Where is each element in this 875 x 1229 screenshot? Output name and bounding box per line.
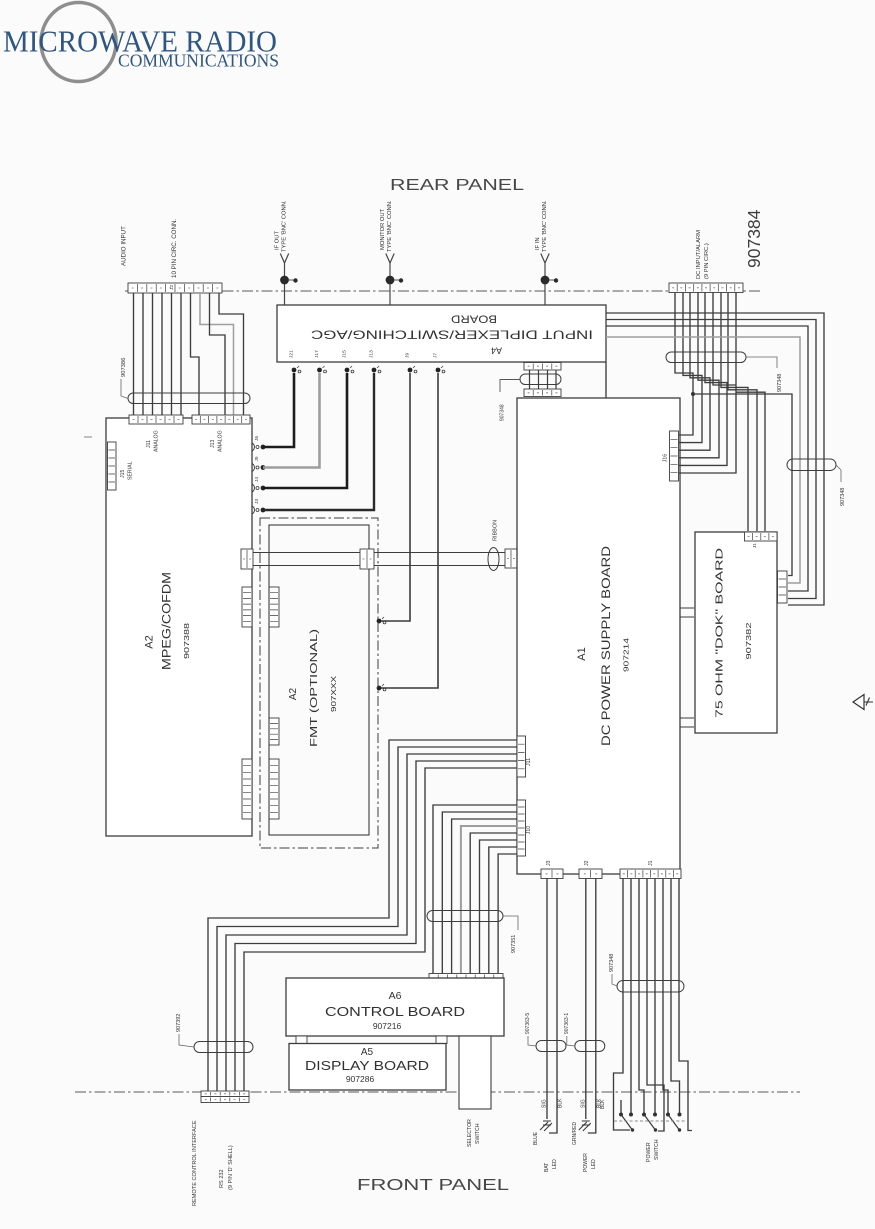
svg-text:BLUE: BLUE xyxy=(533,1131,539,1145)
svg-text:J1: J1 xyxy=(752,543,757,548)
svg-text:INPUT DIPLEXER/SWITCHING/AGC: INPUT DIPLEXER/SWITCHING/AGC xyxy=(311,328,593,342)
svg-text:J4: J4 xyxy=(254,477,260,482)
svg-text:A1: A1 xyxy=(576,647,588,660)
board 75 OHM DOK 907382 xyxy=(695,532,777,733)
coax connector J1 on FMT right edge xyxy=(377,686,382,691)
switch fixed contact feeds xyxy=(639,879,668,1114)
connector pair A2/FMT upper xyxy=(242,587,252,627)
board A2 MPEG/COFDM 907388 xyxy=(106,418,252,836)
LED BAT xyxy=(540,1121,552,1131)
BNC jack MONITOR OUT xyxy=(386,254,394,306)
board link A1-DOK upper xyxy=(680,608,694,617)
coax connector J4 on A2 right edge xyxy=(252,484,254,492)
connector J13 analog on A2 xyxy=(192,415,250,424)
svg-text:907XXX: 907XXX xyxy=(331,676,338,712)
coax wire A2 J6 to A4 J21 xyxy=(263,373,294,447)
svg-text:REAR PANEL: REAR PANEL xyxy=(390,177,525,194)
svg-text:A2: A2 xyxy=(288,687,299,700)
connector J2 on DOK top xyxy=(745,532,778,541)
coax wire A2 J3 to A4 J13 xyxy=(263,373,374,510)
svg-text:907351: 907351 xyxy=(511,935,517,953)
svg-text:LED: LED xyxy=(552,1159,558,1169)
coax connector J6 on A2 right edge xyxy=(252,443,254,451)
svg-text:TYPE 'BNC' CONN.: TYPE 'BNC' CONN. xyxy=(387,200,393,252)
LED POWER xyxy=(579,1121,591,1131)
switch pole wires xyxy=(631,879,680,1114)
svg-text:907388: 907388 xyxy=(182,623,191,659)
svg-text:907384: 907384 xyxy=(744,209,764,268)
rear panel chassis line xyxy=(125,290,761,292)
svg-text:J3: J3 xyxy=(546,860,552,866)
wire bundle audio connector to A2 J11/J13 xyxy=(134,293,182,415)
connector pair A2/FMT lower xyxy=(242,759,252,819)
switch mechanical link xyxy=(614,1120,686,1122)
svg-text:AUDIO INPUT: AUDIO INPUT xyxy=(121,226,128,266)
svg-text:BLK: BLK xyxy=(600,1099,606,1109)
svg-text:J21: J21 xyxy=(289,350,295,358)
wire staircase segment 4 xyxy=(219,293,244,415)
coax connector J2 on FMT right edge xyxy=(377,619,382,624)
svg-text:POWER: POWER xyxy=(646,1142,652,1162)
wire bundle DC connector to J16 and DOK xyxy=(675,293,765,532)
connector remote control interface xyxy=(201,1091,249,1097)
board A2 FMT (OPTIONAL) 907XXX phantom outline xyxy=(260,518,378,848)
logo Microwave Radio Communications xyxy=(3,3,279,82)
svg-text:907363-1: 907363-1 xyxy=(564,1013,570,1034)
svg-text:907348: 907348 xyxy=(500,404,506,421)
coax wire A4 J9 to FMT J2 xyxy=(381,373,410,621)
label 907348 stack cable xyxy=(500,380,520,393)
svg-text:J3: J3 xyxy=(254,499,260,504)
ribbon cable tie xyxy=(488,548,499,571)
connector DC INPUT/ALARM 9 pin xyxy=(669,283,743,293)
board A1 DC POWER SUPPLY BOARD 907214 xyxy=(517,398,680,874)
svg-text:SIG: SIG xyxy=(542,1099,548,1108)
off-page reference arrow xyxy=(853,695,864,710)
svg-text:J2: J2 xyxy=(584,860,590,866)
svg-text:J15: J15 xyxy=(120,470,126,478)
svg-text:907348: 907348 xyxy=(840,488,846,506)
coax wire A2 J5 to A4 J17 (gray) xyxy=(263,373,320,468)
svg-text:POWER: POWER xyxy=(583,1153,589,1172)
connector J11 analog on A2 xyxy=(129,415,183,424)
connector J3 on A1 bottom xyxy=(541,869,563,879)
svg-text:MPEG/COFDM: MPEG/COFDM xyxy=(162,572,174,670)
svg-text:(9 PIN CIRC.): (9 PIN CIRC.) xyxy=(704,243,710,279)
svg-text:907382: 907382 xyxy=(744,623,753,660)
svg-text:DC POWER SUPPLY BOARD: DC POWER SUPPLY BOARD xyxy=(601,546,613,746)
cable tie 907363-5 xyxy=(536,1041,566,1052)
board link A1-DOK lower xyxy=(680,718,694,727)
svg-text:LED: LED xyxy=(591,1159,597,1169)
svg-text:907348: 907348 xyxy=(777,374,783,392)
svg-text:ANALOG: ANALOG xyxy=(154,430,160,452)
svg-text:COMMUNICATIONS: COMMUNICATIONS xyxy=(118,51,279,71)
svg-text:907214: 907214 xyxy=(622,638,631,672)
board A4 INPUT DIPLEXER/SWITCHING/AGC xyxy=(277,305,606,362)
junction node xyxy=(691,392,695,396)
coax connector J21 on A4 bottom xyxy=(292,368,297,373)
svg-text:SELECTOR: SELECTOR xyxy=(467,1119,473,1147)
connector J1 on A1 bottom xyxy=(620,869,681,879)
coax connector J15 on A4 bottom xyxy=(345,368,350,373)
power switch contacts xyxy=(621,1115,679,1130)
svg-text:TYPE 'BNC' CONN.: TYPE 'BNC' CONN. xyxy=(282,200,288,252)
wire A4 to DOK 3 xyxy=(606,326,808,591)
coax connector J5 on A2 right edge xyxy=(252,464,254,472)
svg-text:907363-5: 907363-5 xyxy=(525,1013,531,1034)
board tab A6-A5 left xyxy=(296,1036,307,1044)
svg-text:BAT: BAT xyxy=(544,1163,550,1172)
connector J16 on A1 right edge xyxy=(670,431,679,481)
page margin tick xyxy=(84,436,92,438)
svg-text:A5: A5 xyxy=(361,1047,374,1058)
wire A4 to DOK 4 (gray) xyxy=(606,337,800,583)
svg-text:907386: 907386 xyxy=(121,358,127,377)
wire bundle A1 J11 to remote connector xyxy=(208,740,517,1091)
wire junction to DOK J3 xyxy=(693,394,792,576)
svg-text:907286: 907286 xyxy=(346,1074,375,1084)
wire A4 right edge to A1 top xyxy=(605,362,607,398)
coax connector J7 on A4 bottom xyxy=(436,368,441,373)
svg-text:J13: J13 xyxy=(369,350,375,358)
coax wire A4 J7 to FMT J1 xyxy=(381,373,438,688)
svg-text:FMT (OPTIONAL): FMT (OPTIONAL) xyxy=(308,629,320,747)
connector J2 audio input 10 pin circular xyxy=(128,283,222,293)
svg-text:BOARD: BOARD xyxy=(451,313,497,325)
svg-text:75 OHM "DOK" BOARD: 75 OHM "DOK" BOARD xyxy=(714,547,726,718)
ribbon terminal mid xyxy=(360,549,374,569)
svg-text:J10: J10 xyxy=(526,826,532,834)
wire bundle A1 J10 to A6 control board xyxy=(433,805,517,974)
svg-text:J7: J7 xyxy=(433,353,439,358)
svg-text:RS 232: RS 232 xyxy=(219,1169,225,1188)
connector J15 serial on A2 left edge xyxy=(108,442,117,490)
svg-text:J11: J11 xyxy=(146,440,152,448)
switch wrap wire pole 3 xyxy=(679,879,692,1131)
coax wire A2 J4 to A4 J15 xyxy=(263,373,347,488)
connector on A6 top xyxy=(429,974,503,984)
svg-text:REMOTE CONTROL INTERFACE: REMOTE CONTROL INTERFACE xyxy=(192,1120,198,1206)
svg-text:IF IN: IF IN xyxy=(535,237,541,250)
svg-text:J15: J15 xyxy=(342,350,348,358)
svg-text:(9 PIN 'D' SHELL): (9 PIN 'D' SHELL) xyxy=(228,1145,234,1190)
wire staircase segment 2 (gray) xyxy=(200,293,234,415)
board tab A6-A5 right xyxy=(436,1036,447,1044)
cable tie 907348 right bundle xyxy=(787,459,836,471)
svg-text:MONITOR OUT: MONITOR OUT xyxy=(380,208,386,250)
svg-text:A2: A2 xyxy=(144,635,156,648)
svg-text:DC INPUT/ALARM: DC INPUT/ALARM xyxy=(696,230,702,279)
svg-text:J16: J16 xyxy=(663,454,669,462)
coax connector J13 on A4 bottom xyxy=(372,368,377,373)
svg-text:907348: 907348 xyxy=(609,954,615,972)
svg-text:GRN/RED: GRN/RED xyxy=(572,1122,578,1145)
svg-text:10 PIN CIRC. CONN.: 10 PIN CIRC. CONN. xyxy=(171,219,178,278)
cable tie 907392 xyxy=(194,1042,253,1053)
svg-text:DISPLAY BOARD: DISPLAY BOARD xyxy=(305,1058,429,1073)
connector pair A2/FMT middle xyxy=(269,718,279,745)
connector J3 on DOK right edge xyxy=(778,571,788,603)
svg-text:907216: 907216 xyxy=(373,1021,402,1031)
svg-text:907392: 907392 xyxy=(176,1014,182,1032)
svg-text:J6: J6 xyxy=(254,436,260,441)
svg-text:J1: J1 xyxy=(648,860,654,866)
switch wrap wire pole 1 xyxy=(614,879,631,1131)
cable tie 907351 xyxy=(427,911,503,922)
svg-text:TYPE 'BNC' CONN.: TYPE 'BNC' CONN. xyxy=(542,200,548,252)
ribbon terminal at A2 xyxy=(241,549,253,569)
wire pair to POWER LED xyxy=(585,879,587,1120)
connector J10 on A1 left edge xyxy=(517,800,526,856)
cable tie 907348 on DC bundle xyxy=(666,352,746,363)
coax connector J3 on A2 right edge xyxy=(252,506,254,514)
wire staircase segment 3 xyxy=(210,293,226,415)
cable tie 907386 xyxy=(128,393,250,404)
board A5 DISPLAY BOARD 907286 xyxy=(289,1044,446,1091)
coax connector J17 on A4 bottom xyxy=(317,368,322,373)
wire staircase segment 1 xyxy=(191,293,200,415)
coax connector J9 on A4 bottom xyxy=(408,368,413,373)
wire A4 to DOK 1 xyxy=(606,313,824,605)
svg-text:J5: J5 xyxy=(254,456,260,461)
svg-text:BLK: BLK xyxy=(558,1098,564,1108)
svg-text:J9: J9 xyxy=(405,353,411,358)
svg-text:SERIAL: SERIAL xyxy=(128,461,134,480)
svg-text:J17: J17 xyxy=(314,350,320,358)
svg-text:J2: J2 xyxy=(169,285,175,290)
cable tie 907348 on J1 bundle xyxy=(617,981,684,993)
wire A4 to DOK 2 xyxy=(606,320,816,599)
BNC jack IF IN xyxy=(541,254,549,306)
connector stack A4 J2 to A1 J9 xyxy=(524,363,561,371)
cable tie 907363-1 xyxy=(575,1041,605,1052)
svg-text:ANALOG: ANALOG xyxy=(218,430,224,452)
svg-text:IF OUT: IF OUT xyxy=(275,231,281,250)
svg-text:SWITCH: SWITCH xyxy=(654,1139,660,1160)
svg-text:SIG: SIG xyxy=(580,1099,586,1108)
svg-text:RIBBON: RIBBON xyxy=(493,520,499,541)
BNC jack IF OUT xyxy=(280,254,288,306)
svg-text:A4: A4 xyxy=(491,346,502,356)
svg-text:FRONT PANEL: FRONT PANEL xyxy=(357,1177,510,1194)
front panel chassis line xyxy=(75,1091,800,1093)
switch wrap wire pole 2 xyxy=(647,879,664,1132)
board A6 CONTROL BOARD 907216 xyxy=(286,978,504,1036)
svg-text:SWITCH: SWITCH xyxy=(475,1123,481,1144)
svg-text:A6: A6 xyxy=(389,990,402,1002)
connector J2 on A1 bottom xyxy=(579,869,602,879)
svg-text:J11: J11 xyxy=(526,758,532,766)
wire pair to BAT LED xyxy=(546,879,548,1120)
svg-text:J13: J13 xyxy=(210,440,216,448)
wire gray in J10 bundle xyxy=(461,826,517,974)
selector switch xyxy=(459,1036,491,1109)
svg-text:CONTROL BOARD: CONTROL BOARD xyxy=(325,1004,465,1019)
switch fixed contact stub xyxy=(620,1100,622,1113)
connector J11 on A1 left edge xyxy=(517,736,526,777)
ribbon terminal at A1 xyxy=(505,549,517,568)
ribbon cable A2 to A1 xyxy=(253,553,505,566)
